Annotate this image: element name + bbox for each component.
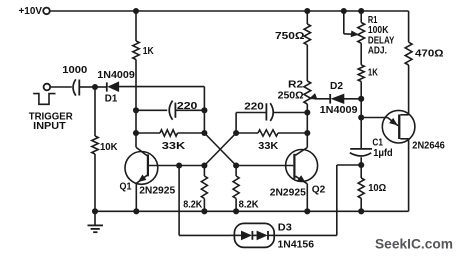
svg-text:Q2: Q2 [312,183,326,195]
svg-text:250Ω: 250Ω [278,90,304,102]
svg-text:8.2K: 8.2K [239,198,259,210]
svg-text:1000: 1000 [62,64,87,76]
svg-text:D1: D1 [105,94,118,105]
svg-text:1μfd: 1μfd [373,147,393,159]
svg-text:750Ω: 750Ω [275,30,305,42]
svg-text:1K: 1K [368,67,378,79]
svg-text:1N4009: 1N4009 [97,70,135,81]
svg-text:220: 220 [244,101,264,113]
svg-text:INPUT: INPUT [33,120,66,132]
svg-text:Q1: Q1 [120,180,132,192]
svg-text:470Ω: 470Ω [415,48,444,60]
svg-text:2N2925: 2N2925 [139,184,175,196]
svg-text:D3: D3 [278,222,292,234]
svg-text:2N2646: 2N2646 [412,141,445,152]
svg-text:ADJ.: ADJ. [368,45,387,57]
svg-text:10K: 10K [100,141,118,153]
svg-text:1N4156: 1N4156 [278,238,315,250]
svg-text:33K: 33K [258,140,278,152]
svg-text:+10V: +10V [19,6,43,17]
svg-text:33K: 33K [162,140,186,152]
svg-text:220: 220 [177,100,198,112]
svg-text:2N2925: 2N2925 [270,186,306,198]
svg-text:10Ω: 10Ω [368,182,386,194]
svg-text:SeekIC.com: SeekIC.com [375,237,453,252]
svg-text:1N4009: 1N4009 [320,105,358,116]
svg-text:D2: D2 [330,81,343,92]
svg-text:8.2K: 8.2K [183,199,202,211]
svg-text:1K: 1K [143,45,154,57]
